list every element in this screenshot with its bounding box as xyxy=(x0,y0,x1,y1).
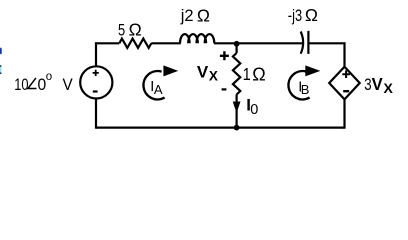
minus sign inside diamond xyxy=(343,90,349,92)
plus sign of Vx polarity xyxy=(220,51,229,60)
dependent source U1 (diamond) 3Vx xyxy=(329,67,360,100)
svg-text:V: V xyxy=(372,75,384,94)
svg-text:o: o xyxy=(46,71,52,83)
svg-text:j2: j2 xyxy=(180,7,194,25)
svg-text:10: 10 xyxy=(14,76,28,94)
wire: bottom horizontal xyxy=(96,126,345,128)
clipped blue text fragment 2 (left edge) xyxy=(0,65,1,74)
svg-text:Ω: Ω xyxy=(197,5,210,25)
wire: inductor to top node xyxy=(214,42,237,44)
svg-text:Ω: Ω xyxy=(305,5,318,25)
svg-text:0: 0 xyxy=(250,102,258,118)
clipped blue text fragment 1 (left edge) xyxy=(0,48,2,55)
svg-text:Ω: Ω xyxy=(129,20,142,40)
arrowhead of IB xyxy=(305,65,320,76)
svg-text:B: B xyxy=(301,82,310,97)
capacitor -j3 ohm (curved left plate, straight right plate) xyxy=(301,31,309,54)
svg-text:V: V xyxy=(63,75,73,94)
svg-text:5: 5 xyxy=(118,22,125,40)
wire: left rail upper xyxy=(95,42,97,66)
minus sign of Vx polarity xyxy=(222,88,227,90)
svg-text:X: X xyxy=(209,69,218,84)
node: bottom junction dot xyxy=(234,125,240,131)
plus sign inside diamond xyxy=(342,70,350,78)
wire: top node to capacitor xyxy=(237,42,303,44)
mesh current arrow IA (arc) xyxy=(143,71,164,99)
wire: middle branch bottom stub xyxy=(236,95,238,128)
mesh current arrow IB (arc) xyxy=(288,71,309,99)
svg-text:Ω: Ω xyxy=(252,64,265,84)
svg-text:A: A xyxy=(154,82,163,97)
wire: right rail lower xyxy=(343,99,345,128)
resistor 5 ohm (top zigzag) xyxy=(119,39,151,48)
wire: right rail upper xyxy=(343,42,345,67)
svg-text:1: 1 xyxy=(243,65,251,85)
inductor j2 ohm (4 humps) xyxy=(180,34,214,43)
wire: left rail lower xyxy=(95,99,97,129)
wire: between resistor and inductor xyxy=(151,42,181,44)
wire: middle branch top stub xyxy=(236,43,238,53)
resistor 1 ohm (vertical zigzag) xyxy=(233,53,240,95)
wire: top-left horizontal from left rail to R1 xyxy=(96,42,119,44)
arrowhead of IA xyxy=(163,65,178,76)
svg-text:-j3: -j3 xyxy=(288,8,302,26)
svg-text:3: 3 xyxy=(364,75,371,94)
minus sign inside source circle xyxy=(93,90,98,92)
wire: capacitor to top-right corner xyxy=(308,42,344,44)
voltage source V1: 10 angle 0 V (circle) xyxy=(80,66,112,98)
svg-text:V: V xyxy=(197,63,209,82)
angle symbol of source label xyxy=(28,78,37,89)
svg-text:X: X xyxy=(384,80,394,96)
current arrow I0 (down triangle on middle branch) xyxy=(233,102,241,114)
node: top junction dot xyxy=(234,41,240,47)
plus sign inside source circle xyxy=(93,70,99,76)
